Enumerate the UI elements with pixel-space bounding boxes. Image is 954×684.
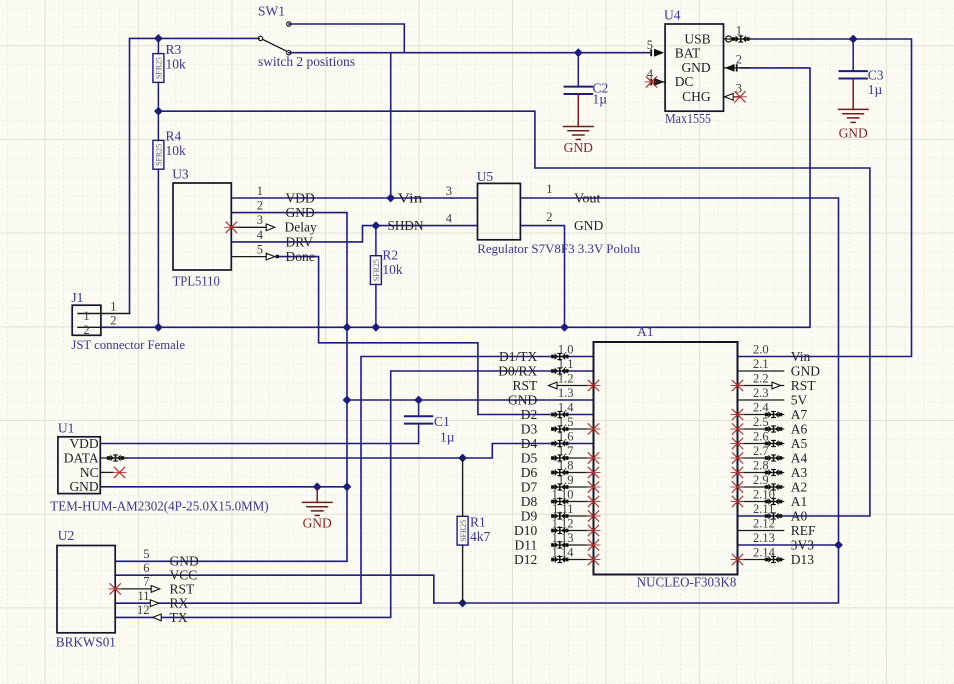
node R3/R4 divider <box>155 107 163 115</box>
U1 pin NC <box>100 471 113 473</box>
sensor U1 AM2302 <box>58 437 100 494</box>
resistor R1 <box>457 516 468 545</box>
no-connect A1 pin 1.9 <box>587 482 600 492</box>
no-connect U2 RST <box>109 584 122 594</box>
U4 pin GND (2) <box>724 67 750 69</box>
svg-text:3V3: 3V3 <box>791 537 814 552</box>
svg-text:J1: J1 <box>71 290 83 305</box>
svg-text:1: 1 <box>110 300 116 314</box>
A1 pin 1.14 D12 <box>552 559 594 561</box>
svg-text:2: 2 <box>546 210 552 224</box>
svg-text:switch 2 positions: switch 2 positions <box>258 54 355 69</box>
A1 pin 1.11 D9 <box>552 515 594 517</box>
svg-text:D8: D8 <box>521 494 538 509</box>
svg-text:2.11: 2.11 <box>753 502 774 516</box>
node rail x U5-GND riser <box>561 323 569 331</box>
capacitor C2 <box>565 87 592 94</box>
no-connect U4 CHG <box>734 92 747 102</box>
no-connect A1 pin 2.8 <box>731 467 744 477</box>
svg-text:SFR25: SFR25 <box>155 57 164 79</box>
svg-text:Done: Done <box>286 249 315 264</box>
U3 pin 3 Delay <box>231 226 266 228</box>
no-connect A1 pin 1.5 <box>587 424 600 434</box>
A1 pin 1.5 D3 <box>552 428 594 430</box>
wire U1 VDD to C1 bottom <box>100 443 418 445</box>
wire GND rail J1.2 to U4 GND pin2 <box>101 68 810 327</box>
A1 pin 2.6 A5 <box>738 443 784 445</box>
svg-text:D10: D10 <box>514 523 537 538</box>
IC U4 Max1555 <box>665 24 723 111</box>
svg-text:NUCLEO-F303K8: NUCLEO-F303K8 <box>637 575 737 590</box>
svg-text:2: 2 <box>83 323 89 337</box>
svg-text:4: 4 <box>446 211 453 225</box>
A1 pin 2.10 A1 <box>738 501 784 503</box>
wire U3 VDD to Vin to U5 pin3 <box>231 197 477 199</box>
wire U2 TX to A1 D0/RX (1.1) <box>115 371 593 617</box>
no-connect A1 pin 1.14 <box>587 554 600 564</box>
svg-text:D3: D3 <box>521 421 538 436</box>
svg-text:D9: D9 <box>521 508 538 523</box>
svg-text:2: 2 <box>110 313 116 327</box>
wire U2 RX to A1 D1/TX (1.0) <box>115 357 593 604</box>
svg-text:GND: GND <box>574 218 603 233</box>
svg-text:5V: 5V <box>791 392 808 407</box>
svg-text:Regulator S7V8F3 3.3V Pololu: Regulator S7V8F3 3.3V Pololu <box>477 241 640 256</box>
node U1 GND symbol tap <box>313 483 321 491</box>
A1 pin 2.12 REF <box>738 530 784 532</box>
svg-text:12: 12 <box>137 603 150 617</box>
A1 pin 1.10 D8 <box>552 501 594 503</box>
svg-text:1.2: 1.2 <box>558 371 574 385</box>
svg-text:2.10: 2.10 <box>753 487 775 501</box>
connector J1 JST <box>72 305 101 335</box>
A1 pin 2.14 D13 <box>738 559 784 561</box>
U4 pin DC (4) <box>652 81 666 83</box>
svg-text:2: 2 <box>736 53 742 67</box>
svg-text:10k: 10k <box>382 262 403 277</box>
svg-text:A7: A7 <box>791 407 808 422</box>
wire U4 USB pin1 to A1 Vin (2.0) <box>738 39 912 357</box>
svg-text:1µ: 1µ <box>593 92 608 107</box>
A1 pin 2.8 A3 <box>738 472 784 474</box>
no-connect U1 NC <box>113 467 126 477</box>
svg-text:D4: D4 <box>521 436 538 451</box>
svg-text:2.4: 2.4 <box>753 400 769 414</box>
no-connect A1 pin 1.13 <box>587 540 600 550</box>
ground C2 <box>564 127 594 140</box>
svg-text:1µ: 1µ <box>868 82 883 97</box>
svg-text:BAT: BAT <box>675 45 701 60</box>
svg-text:D12: D12 <box>514 552 537 567</box>
svg-text:6: 6 <box>143 561 149 575</box>
svg-text:2.7: 2.7 <box>753 444 769 458</box>
svg-text:1: 1 <box>257 184 263 198</box>
svg-text:VDD: VDD <box>286 190 315 205</box>
pin symbol U2 RST <box>151 586 160 593</box>
svg-text:GND: GND <box>170 554 199 569</box>
IC U5 regulator S7V8F3 <box>478 183 521 239</box>
node C3 top on USB net <box>849 35 857 43</box>
svg-text:R3: R3 <box>166 42 182 57</box>
svg-text:2.13: 2.13 <box>753 531 775 545</box>
capacitor C1 <box>405 416 432 423</box>
wire BAT net to U4 BAT pin5 <box>289 52 650 54</box>
svg-text:JST connector Female: JST connector Female <box>71 337 185 352</box>
svg-text:3: 3 <box>257 213 263 227</box>
svg-text:1: 1 <box>83 309 89 323</box>
U4 pin CHG (3) <box>724 96 739 98</box>
no-connect A1 pin 2.14 <box>731 554 744 564</box>
svg-text:5: 5 <box>257 242 263 256</box>
svg-text:1: 1 <box>736 24 742 38</box>
svg-text:U2: U2 <box>58 528 75 543</box>
no-connect U4 DC <box>645 77 658 87</box>
A1 pin 2.5 A6 <box>738 428 784 430</box>
svg-text:A4: A4 <box>791 450 808 465</box>
svg-text:Delay: Delay <box>285 220 317 235</box>
svg-text:Vout: Vout <box>574 191 601 206</box>
board A1 NUCLEO-F303K8 <box>594 342 738 575</box>
node C1 top on GND <box>415 396 423 404</box>
no-connect A1 pin 2.5 <box>731 424 744 434</box>
J1 pin 2 <box>78 326 101 328</box>
svg-text:A2: A2 <box>791 479 808 494</box>
wire A1 3V3 (2.13) to Vout net <box>738 544 839 546</box>
no-connect A1 pin 2.4 <box>731 409 744 419</box>
wire U3 GND riser down to U2 GND <box>115 213 347 562</box>
A1 pin 2.1 GND <box>738 370 784 372</box>
svg-text:2.5: 2.5 <box>753 415 769 429</box>
svg-text:5: 5 <box>647 38 653 52</box>
svg-text:4k7: 4k7 <box>470 529 491 544</box>
svg-text:R4: R4 <box>166 129 182 144</box>
wire J1+ battery to switch pole / R3 top <box>130 38 260 313</box>
svg-text:RST: RST <box>513 378 539 393</box>
node 3V3 tap <box>835 541 843 549</box>
svg-text:D1/TX: D1/TX <box>499 349 537 364</box>
no-connect A1 pin 1.12 <box>587 525 600 535</box>
svg-text:R2: R2 <box>382 248 398 263</box>
svg-text:1: 1 <box>546 182 552 196</box>
module U2 BRKWS01 <box>57 546 115 633</box>
svg-text:7: 7 <box>143 575 149 589</box>
svg-text:TEM-HUM-AM2302(4P-25.0X15.0MM): TEM-HUM-AM2302(4P-25.0X15.0MM) <box>50 499 268 514</box>
svg-text:DC: DC <box>675 74 694 89</box>
U3 pin 5 Done <box>231 256 266 258</box>
svg-text:Vin: Vin <box>398 191 423 206</box>
J1 pin 1 <box>78 313 130 315</box>
svg-text:TX: TX <box>170 610 188 625</box>
svg-text:BRKWS01: BRKWS01 <box>56 635 116 650</box>
svg-text:GND: GND <box>303 515 332 530</box>
svg-text:GND: GND <box>69 479 98 494</box>
A1 pin 1.13 D11 <box>552 544 594 546</box>
A1 pin 2.4 A7 <box>738 414 784 416</box>
resistor R3 <box>153 54 164 83</box>
wire divider mid to A1 A0 (2.11) <box>158 111 870 516</box>
U4 pin BAT (5) <box>650 49 652 56</box>
svg-text:2.6: 2.6 <box>753 429 769 443</box>
svg-text:REF: REF <box>791 523 816 538</box>
svg-text:1µ: 1µ <box>440 429 455 444</box>
svg-text:TPL5110: TPL5110 <box>173 274 220 289</box>
svg-text:DRV: DRV <box>286 234 314 249</box>
svg-text:A6: A6 <box>791 421 808 436</box>
svg-text:5: 5 <box>143 547 149 561</box>
wire switch throw1 to BAT net <box>289 24 405 53</box>
svg-text:2.1: 2.1 <box>753 357 769 371</box>
svg-text:A1: A1 <box>637 324 654 339</box>
pin symbol U3 Delay <box>266 224 275 231</box>
svg-text:D2: D2 <box>521 407 538 422</box>
svg-text:2.14: 2.14 <box>753 545 776 559</box>
svg-text:2.9: 2.9 <box>753 473 769 487</box>
wire Vin riser from switch throw2 <box>390 53 392 198</box>
svg-text:2.12: 2.12 <box>753 516 775 530</box>
A1 pin 2.2 RST <box>738 385 784 387</box>
node riser x U1-GND <box>343 483 351 491</box>
node R3 top / battery+ <box>155 35 163 43</box>
svg-text:USB: USB <box>684 31 710 46</box>
svg-text:10k: 10k <box>166 143 187 158</box>
no-connect A1 pin 1.8 <box>587 467 600 477</box>
svg-text:GND: GND <box>564 140 593 155</box>
svg-text:4: 4 <box>257 228 264 242</box>
A1 pin 1.9 D7 <box>552 486 594 488</box>
IC U3 TPL5110 <box>173 183 231 270</box>
A1 pin 2.3 5V <box>738 399 784 401</box>
svg-text:GND: GND <box>508 392 537 407</box>
ground C3 <box>838 109 868 122</box>
svg-text:D0/RX: D0/RX <box>498 363 537 378</box>
svg-text:Max1555: Max1555 <box>665 112 711 127</box>
svg-text:2.3: 2.3 <box>753 386 769 400</box>
svg-text:SFR25: SFR25 <box>459 520 468 542</box>
no-connect A1 pin 2.9 <box>731 482 744 492</box>
A1 pin 1.8 D6 <box>552 472 594 474</box>
wire U3 DRV to U5 SHDN pin4 <box>231 226 477 242</box>
svg-text:RST: RST <box>791 378 817 393</box>
svg-text:C1: C1 <box>434 414 450 429</box>
node R2 top on SHDN <box>372 222 380 230</box>
svg-text:U1: U1 <box>58 420 75 435</box>
resistor R4 <box>153 140 164 169</box>
svg-text:A3: A3 <box>791 465 808 480</box>
U4 pin USB (1) <box>724 38 750 40</box>
pin symbol U2 RX <box>150 600 159 607</box>
A1 pin 1.7 D5 <box>552 457 594 459</box>
svg-text:2: 2 <box>257 198 263 212</box>
svg-text:D6: D6 <box>521 465 538 480</box>
svg-text:D5: D5 <box>521 450 538 465</box>
svg-text:2.0: 2.0 <box>753 342 769 356</box>
svg-text:GND: GND <box>681 60 710 75</box>
wire U3 Done to A1 D2 (1.4) <box>279 257 594 415</box>
node rail x R2 bottom <box>372 323 380 331</box>
svg-text:10k: 10k <box>166 57 187 72</box>
A1 pin 2.9 A2 <box>738 486 784 488</box>
no-connect A1 pin 1.2 <box>587 380 600 390</box>
svg-text:A5: A5 <box>791 436 808 451</box>
node Vin <box>387 194 395 202</box>
svg-text:R1: R1 <box>470 514 486 529</box>
pin symbol U2 TX <box>153 614 162 621</box>
svg-text:U3: U3 <box>172 167 189 182</box>
svg-text:A0: A0 <box>791 508 808 523</box>
svg-text:1.3: 1.3 <box>558 386 574 400</box>
svg-text:C3: C3 <box>868 68 884 83</box>
svg-text:GND: GND <box>286 205 315 220</box>
svg-text:11: 11 <box>137 589 149 603</box>
pin symbol U3 Done <box>266 253 275 260</box>
svg-text:A1: A1 <box>791 494 808 509</box>
no-connect A1 pin 1.7 <box>587 453 600 463</box>
svg-text:GND: GND <box>791 363 820 378</box>
svg-text:SFR25: SFR25 <box>372 259 381 281</box>
svg-text:NC: NC <box>80 465 99 480</box>
no-connect A1 pin 2.2 <box>731 380 744 390</box>
svg-text:3: 3 <box>446 184 452 198</box>
svg-text:2.2: 2.2 <box>753 371 769 385</box>
A1 pin 1.2 RST <box>552 385 594 387</box>
svg-text:VDD: VDD <box>69 436 98 451</box>
svg-text:2.8: 2.8 <box>753 458 769 472</box>
no-connect A1 pin 2.6 <box>731 438 744 448</box>
wire GND to A1 1.3 <box>347 399 594 401</box>
svg-text:SW1: SW1 <box>258 4 285 19</box>
svg-text:U4: U4 <box>664 8 681 23</box>
no-connect U3 Delay <box>225 222 238 232</box>
no-connect A1 pin 2.7 <box>731 453 744 463</box>
svg-text:D7: D7 <box>521 479 538 494</box>
wire U1 DATA to A1 D4 (1.6) <box>126 444 594 459</box>
no-connect A1 pin 1.10 <box>587 496 600 506</box>
capacitor C3 <box>840 71 867 78</box>
svg-text:D13: D13 <box>791 552 814 567</box>
svg-text:SHDN: SHDN <box>388 218 424 233</box>
U1 pin DATA <box>100 457 127 459</box>
svg-text:D11: D11 <box>515 537 538 552</box>
node rail x R4 bottom <box>155 323 163 331</box>
switch SW1 <box>258 22 291 55</box>
A1 pin 2.7 A4 <box>738 457 784 459</box>
ground U1 GND <box>316 489 318 503</box>
wire U5 GND pin2 down to rail <box>520 226 564 328</box>
wire U2 VCC to 3V3 net <box>115 575 434 603</box>
svg-text:DATA: DATA <box>64 450 99 465</box>
node rail x U3-GND riser <box>343 323 351 331</box>
svg-text:SFR25: SFR25 <box>155 144 164 166</box>
svg-text:Vin: Vin <box>791 349 811 364</box>
wire U5 Vout to 3V3 net down and left <box>434 198 839 603</box>
node R1 top on DATA <box>459 454 467 462</box>
svg-text:RST: RST <box>170 581 196 596</box>
node R1 bottom on 3V3 <box>459 599 467 607</box>
resistor R2 <box>370 256 381 285</box>
wire U1 GND to riser <box>100 486 347 488</box>
node C2 top on BAT net <box>574 49 582 57</box>
svg-text:CHG: CHG <box>682 89 711 104</box>
no-connect A1 pin 1.11 <box>587 511 600 521</box>
A1 pin 1.12 D10 <box>552 530 594 532</box>
svg-text:RX: RX <box>170 596 189 611</box>
svg-text:U5: U5 <box>477 169 494 184</box>
node riser x A1-GND <box>343 396 351 404</box>
svg-text:GND: GND <box>839 125 868 140</box>
no-connect A1 pin 2.10 <box>731 496 744 506</box>
